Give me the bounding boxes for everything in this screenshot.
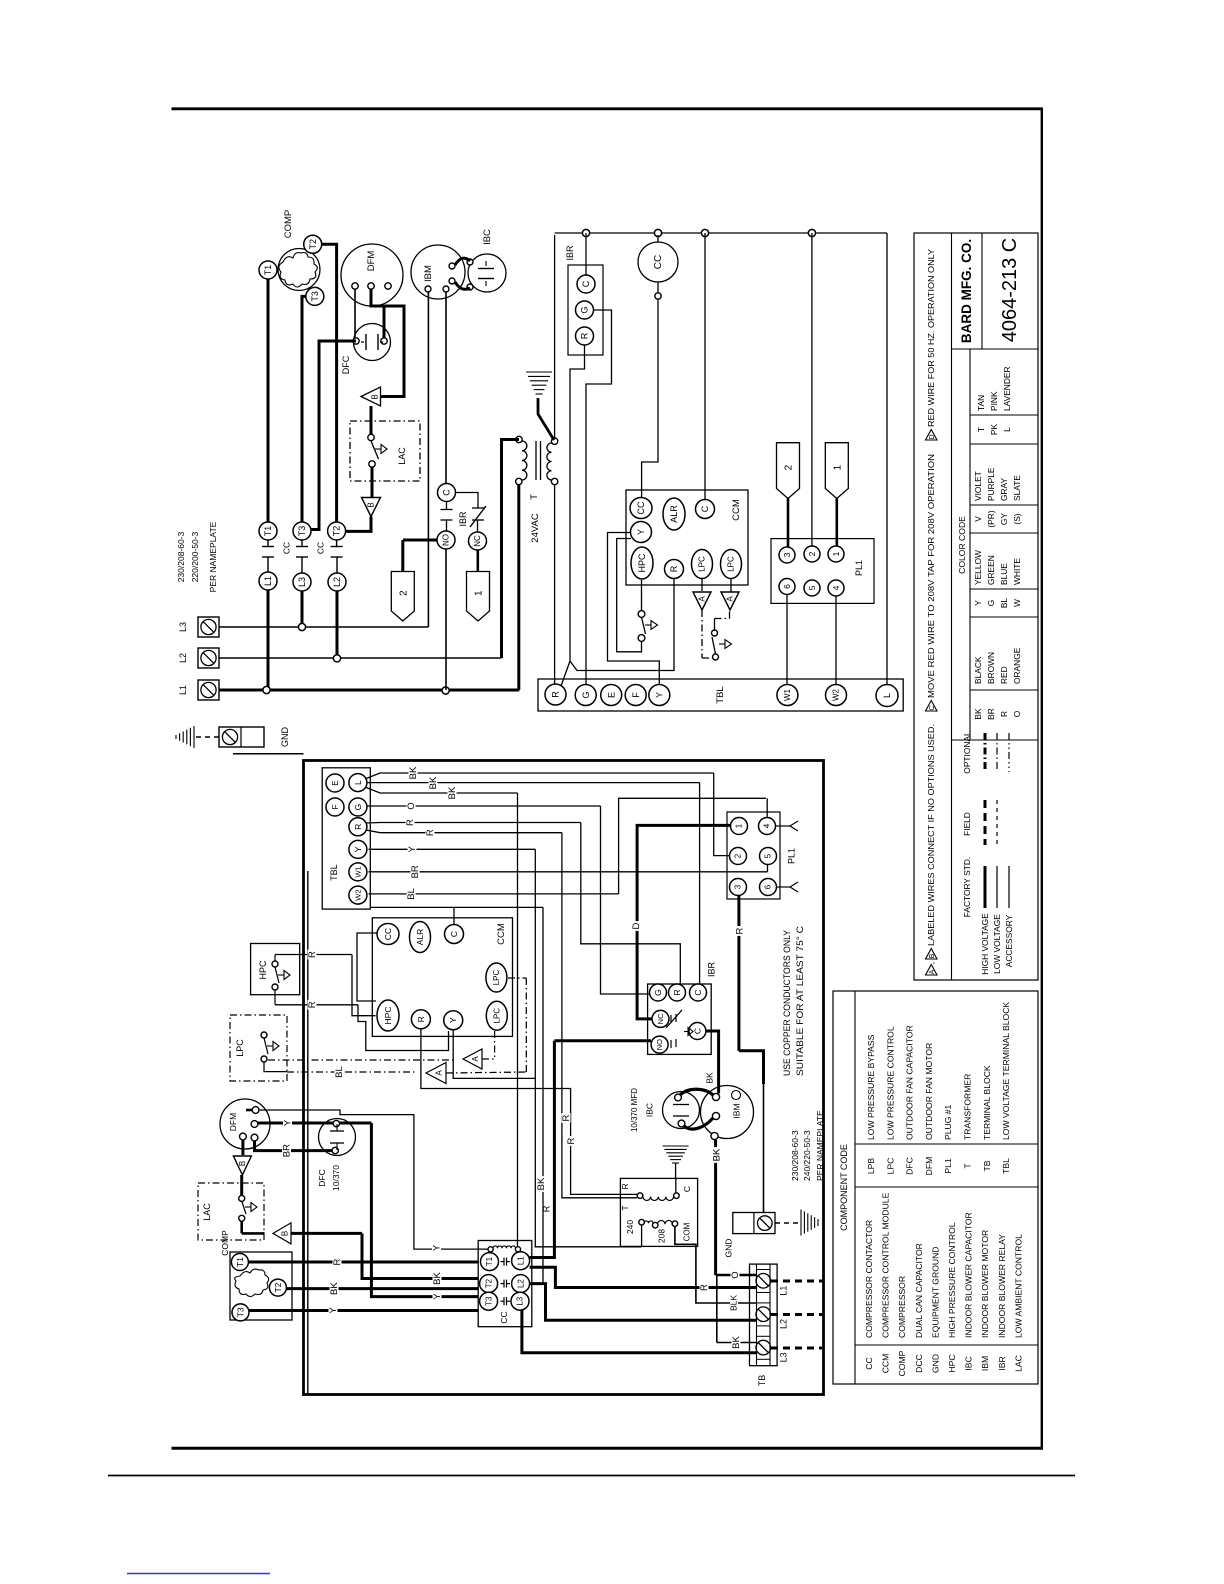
plug PL1 upper box [771,539,874,604]
wire DFM BR to DFC bottom [255,1141,332,1151]
svg-text:F: F [631,692,641,698]
transformer secondary coil [551,438,557,444]
svg-text:CCM: CCM [881,1354,891,1374]
wire LAC to B flag to CC T2 [240,1221,243,1233]
svg-text:,: , [926,962,936,964]
wire IBR G to TBL G [586,310,612,684]
contactor contact CC T1-L1 [259,522,277,540]
wire CC coil to CCM CC [642,299,658,497]
svg-text:L: L [353,780,363,785]
IBR G lower [650,984,667,1001]
wire T1 to contact CC [267,279,270,523]
svg-text:PINK: PINK [989,391,999,411]
CC T1 [481,1253,499,1271]
svg-text:L: L [882,693,892,698]
outdoor fan capacitor DFC circle [354,324,391,361]
svg-text:BR: BR [282,1144,293,1157]
PL1 pin 4 [828,580,844,596]
svg-text:220/200-50-3: 220/200-50-3 [190,531,200,582]
svg-text:LPC: LPC [727,556,736,572]
PL1 pin 3 [779,547,795,563]
svg-text:T: T [963,1163,973,1169]
svg-text:6: 6 [764,884,773,889]
PL1 pin 5 [804,580,820,596]
wire rail to TBL L [886,233,888,684]
wire junction to CCM R [570,578,674,671]
PL1-6 lower [760,879,777,896]
IBC capacitor plates [478,268,494,270]
svg-text:24VAC: 24VAC [530,513,541,543]
CCM terminal R [665,560,684,579]
svg-text:LPC: LPC [492,969,501,985]
svg-text:HIGH VOLTAGE: HIGH VOLTAGE [980,913,990,975]
wire CCM Y to TBL Y riser [453,1030,535,1078]
svg-text:DFM: DFM [924,1157,934,1176]
svg-text:BK: BK [536,1177,547,1190]
svg-text:CC: CC [864,1357,874,1369]
svg-text:T3: T3 [484,1296,493,1306]
wire CC L2 to TB L2 [530,1284,756,1321]
svg-text:TAN: TAN [976,395,986,411]
svg-text:B: B [280,1231,289,1236]
svg-text:IBM: IBM [732,1103,742,1118]
wire BK2 TBL L to IBR C [367,782,700,784]
svg-text:CC: CC [499,1311,509,1323]
svg-text:IBM: IBM [423,265,434,282]
svg-text:LOW AMBIENT CONTROL: LOW AMBIENT CONTROL [1013,1234,1023,1338]
CCM C lower [445,925,464,944]
wire COMP T2 to CC [287,1287,479,1290]
svg-text:IBR: IBR [458,511,468,527]
CCM terminal HPC [631,547,653,579]
wire BL TBL W2 to PL1 pin4 [369,893,619,895]
svg-text:R: R [699,1284,710,1291]
wire BK3 TBL L to CC coil [365,787,518,793]
svg-text:R: R [566,1137,577,1144]
HPC switch [272,961,278,967]
svg-text:(PR): (PR) [986,510,996,527]
IBR contact marks [670,1015,672,1023]
outdoor fan motor DFM lower [220,1099,270,1149]
svg-text:GND: GND [724,1239,734,1258]
svg-text:L: L [1002,427,1012,432]
svg-text:R: R [620,1183,630,1189]
svg-text:LOW VOLTAGE TERMINAL BLOCK: LOW VOLTAGE TERMINAL BLOCK [1001,1002,1011,1140]
svg-text:R: R [307,1001,318,1008]
CCM R lower [411,1010,430,1029]
TB L3 terminal [756,1340,771,1355]
svg-text:5: 5 [764,853,773,858]
dashed wire ground [196,736,219,738]
svg-text:LOW VOLTAGE: LOW VOLTAGE [992,914,1002,974]
svg-text:L3: L3 [297,577,307,587]
CCM terminal LPC2 [721,550,742,579]
svg-text:TBL: TBL [715,686,726,703]
wire R2 TBL R to transformer R [366,830,562,833]
wire T2 to contact CC [322,244,337,522]
IBC terminals [467,259,473,265]
svg-text:OUTDOOR FAN CAPACITOR: OUTDOOR FAN CAPACITOR [905,1025,915,1140]
compressor COMP winding [279,253,317,288]
chassis ground symbol [175,735,177,739]
svg-text:BL: BL [999,598,1009,609]
ground terminal GND [219,727,264,747]
svg-text:LPB: LPB [866,1158,876,1175]
svg-text:LPC: LPC [493,1008,502,1024]
wire CCM C to rail [704,233,706,499]
svg-text:R: R [551,691,561,698]
svg-text:VIOLET: VIOLET [973,471,983,501]
svg-text:A: A [929,969,936,974]
LAC switch [368,434,374,440]
compressor COMP box lower [230,1252,292,1320]
svg-text:CC: CC [653,255,664,269]
svg-text:O: O [1012,710,1022,717]
svg-text:T2: T2 [484,1278,493,1288]
svg-text:BK: BK [705,1072,715,1084]
field wiring L3 [771,1347,822,1350]
CC T3 [480,1292,498,1310]
svg-text:O: O [730,1271,741,1278]
svg-text:BR: BR [986,708,996,720]
CCM terminal Y [631,522,652,543]
svg-text:COLOR CODE: COLOR CODE [957,516,967,574]
svg-text:LAC: LAC [1013,1355,1023,1372]
phase row L3 [219,626,428,628]
compressor control module CCM box [626,490,748,585]
svg-text:HPC: HPC [947,1354,957,1372]
svg-text:TBL: TBL [329,864,339,881]
transformer primary coil lower [639,1219,645,1225]
wire IBR C to IBM [706,1031,719,1094]
svg-text:LOW PRESSURE BYPASS: LOW PRESSURE BYPASS [866,1034,876,1140]
flag 2 at PL1 [777,443,800,499]
CC T2 [480,1275,498,1293]
CC coil bottom terminal [657,282,659,293]
svg-text:DFC: DFC [905,1157,915,1175]
svg-text:TB: TB [757,1375,767,1387]
wire DFM top to CC coil Y riser [246,1109,252,1112]
svg-text:Y: Y [283,1119,294,1126]
svg-text:IBC: IBC [645,1103,655,1117]
wire IBM to TB L1 and L3 [714,1140,717,1275]
svg-text:T2: T2 [332,526,342,537]
svg-text:USE COPPER CONDUCTORS ONLY: USE COPPER CONDUCTORS ONLY [782,929,793,1076]
svg-text:R: R [542,1205,552,1212]
svg-text:MOVE RED WIRE TO 208V TAP FOR: MOVE RED WIRE TO 208V TAP FOR 208V OPERA… [926,454,936,698]
svg-text:LAVENDER: LAVENDER [1002,366,1012,411]
outdoor fan capacitor DFC lower [319,1119,356,1156]
svg-text:Y: Y [353,846,363,852]
wire primary top to L2 riser [502,440,520,659]
svg-text:BK: BK [731,1336,742,1349]
svg-text:LAC: LAC [202,1203,212,1221]
transformer core [535,441,537,480]
svg-text:2: 2 [784,464,795,470]
svg-text:BL: BL [334,1066,345,1078]
svg-text:LOW PRESSURE CONTROL: LOW PRESSURE CONTROL [885,1026,895,1140]
svg-text:W2: W2 [353,889,362,900]
svg-text:COMPRESSOR CONTROL MODULE: COMPRESSOR CONTROL MODULE [881,1192,891,1338]
CCM HPC lower [377,1000,399,1031]
svg-text:IBR: IBR [707,962,717,978]
svg-text:2: 2 [398,590,409,596]
svg-text:G: G [653,989,663,996]
svg-text:4064-213 C: 4064-213 C [999,238,1021,343]
line samples low voltage [996,866,998,908]
COMP winding lower [235,1269,269,1297]
TBL Y [349,840,367,858]
svg-text:IBM: IBM [980,1356,990,1371]
PL1 harness forks [776,825,791,827]
svg-text:Y: Y [636,529,646,535]
contactor coil CC circle [638,242,678,282]
svg-text:DFM: DFM [366,251,377,272]
svg-text:2: 2 [734,853,743,858]
svg-text:TERMINAL BLOCK: TERMINAL BLOCK [982,1065,992,1140]
svg-text:LAC: LAC [397,447,407,465]
terminal block TBL lower [322,768,370,909]
svg-text:2: 2 [807,551,817,556]
svg-text:HIGH PRESSURE CONTROL: HIGH PRESSURE CONTROL [947,1222,957,1338]
PL1-5 lower [760,848,777,865]
svg-text:G: G [580,306,590,313]
IBM terminals [425,286,431,292]
transformer T primary coil [516,436,522,442]
svg-text:240: 240 [625,1220,635,1234]
svg-text:L1: L1 [516,1256,525,1265]
svg-text:B: B [371,394,380,399]
svg-text:CC: CC [282,542,292,554]
page border bottom edge [172,1447,1044,1450]
wire IBR NO to R node [554,1039,651,1042]
svg-text:C: C [700,505,710,512]
indoor blower capacitor IBC circle [468,254,506,292]
warning notes line [926,965,938,976]
chassis ground above transformer [663,1145,689,1147]
flag 1 upper schematic [467,572,490,622]
svg-text:C: C [693,989,703,995]
wire secondary top to C rail [554,235,556,438]
PL1 pin 1 [828,546,844,562]
svg-text:L2: L2 [332,577,342,587]
svg-text:TB: TB [982,1160,992,1171]
svg-text:R: R [416,1016,426,1022]
IBR NO contact [651,1036,668,1053]
svg-text:D: D [631,922,642,929]
optional wire LPC to CCM LPC2 [268,1059,455,1061]
svg-text:R: R [580,332,590,339]
wire IBM to IBC lower [455,282,470,289]
svg-text:Y: Y [328,1307,339,1314]
TBL terminal Y [649,685,670,706]
svg-text:BR: BR [410,865,421,878]
wire T3 to contact CC [302,296,306,522]
svg-text:LPC: LPC [885,1158,895,1175]
flag B lower [362,498,381,517]
contactor CC box lower [478,1241,532,1327]
flag 2 upper schematic [391,572,414,622]
svg-text:T1: T1 [263,265,273,276]
wire R1 TBL R to IBR R [366,822,581,825]
svg-text:C: C [682,1186,692,1192]
wire B flag to LAC [370,406,373,434]
svg-text:R: R [561,1114,572,1121]
wire ground to C terminal [675,1178,677,1193]
footer rule line [108,1475,1075,1477]
svg-text:RED WIRE FOR 50 HZ. OPERATION: RED WIRE FOR 50 HZ. OPERATION ONLY [926,249,936,427]
low voltage rail [555,232,887,234]
PL1 pin 2 [804,546,820,562]
svg-text:HPC: HPC [637,553,647,573]
IBR contact ticks [446,502,448,510]
IBR NC contact [652,1010,669,1027]
low ambient control LAC box [350,421,420,481]
plug PL1 lower box [727,812,780,899]
svg-text:5: 5 [807,585,817,590]
IBR box terminal C [577,275,595,293]
svg-text:R: R [672,989,682,995]
field wiring L2 [771,1313,822,1316]
svg-text:W1: W1 [353,866,362,877]
relay contact IBR NO [437,531,455,549]
svg-text:T3: T3 [310,291,320,302]
svg-text:R: R [669,565,679,572]
svg-text:T2: T2 [308,239,318,250]
ground terminal GND lower [733,1213,775,1234]
svg-text:A: A [725,596,734,602]
svg-text:FIELD: FIELD [962,812,972,836]
svg-text:HPC: HPC [258,960,268,980]
svg-text:W: W [1012,599,1022,607]
transformer T box lower [620,1178,697,1246]
svg-text:YELLOW: YELLOW [973,550,983,585]
svg-text:T: T [529,494,540,500]
svg-text:GREEN: GREEN [986,555,996,585]
wire junction to TBL R diagonal [561,661,570,686]
svg-text:BK: BK [428,776,439,789]
svg-text:R: R [999,711,1009,717]
wire NO to L1 row [445,549,447,691]
svg-text:L1: L1 [178,685,188,695]
flag 1 at PL1 [825,443,848,499]
svg-text:1: 1 [474,590,485,596]
svg-text:DFM: DFM [228,1113,238,1131]
title cell divider [981,233,983,349]
svg-text:PLUG #1: PLUG #1 [943,1104,953,1140]
svg-text:ACCESSORY: ACCESSORY [1004,914,1014,967]
page border top edge [172,107,1044,110]
svg-text:ORANGE: ORANGE [1012,647,1022,684]
CCM CC lower [377,924,399,945]
svg-text:IBC: IBC [964,1356,974,1370]
svg-text:T1: T1 [263,526,273,537]
svg-text:10/370: 10/370 [331,1165,341,1191]
optional low pressure bypass wiring [701,579,703,592]
wire IBM left lead / L3 riser [427,292,429,627]
svg-text:1: 1 [831,551,841,556]
CC coil lower [488,1247,493,1252]
compressor COMP motor circle [278,249,320,291]
wire IBR R to TBL R [570,345,585,661]
svg-text:ALR: ALR [669,505,679,523]
svg-text:T: T [620,1205,630,1210]
indoor blower motor IBM circle [411,245,465,299]
CC L2 [512,1275,530,1293]
chassis ground symbol right [800,1210,802,1236]
contactor contact CC T2-L2 [328,522,346,540]
svg-text:Y: Y [448,1017,458,1023]
line samples accessory [1008,866,1010,908]
svg-text:BK: BK [432,1272,443,1285]
TBL terminal E [601,685,622,706]
svg-text:GY: GY [999,513,1009,526]
svg-text:L1: L1 [263,576,273,586]
IBR common contact [689,1023,706,1040]
svg-text:L2: L2 [779,1319,789,1329]
compressor terminal T2 [304,235,322,253]
terminal block TB [750,1264,778,1366]
terminal L3 [198,617,219,637]
svg-text:DUAL CAN CAPACITOR: DUAL CAN CAPACITOR [914,1243,924,1338]
svg-text:C: C [442,489,452,496]
svg-text:INDOOR BLOWER RELAY: INDOOR BLOWER RELAY [997,1234,1007,1338]
wire PL1 pin 4 to W2 [835,596,837,684]
IBR R lower [669,984,686,1001]
wire CC L3 to TB L3 [522,1310,756,1353]
svg-text:BLK: BLK [729,1295,739,1311]
CC L3 [511,1292,529,1310]
svg-text:IBC: IBC [482,229,493,245]
svg-text:T1: T1 [485,1256,494,1266]
svg-text:6: 6 [782,584,792,589]
PL1-3 lower [730,879,747,896]
svg-text:COMP: COMP [897,1350,907,1376]
line samples high voltage [984,866,987,908]
svg-text:1: 1 [735,823,744,828]
wire LAC to B flag lower [371,467,374,498]
svg-text:10/370 MFD: 10/370 MFD [630,1088,639,1132]
TBL terminal R [545,684,566,705]
TBL W1 [349,863,367,881]
wire CCM Y to HPC switch [617,539,642,652]
outdoor fan motor DFM circle [341,244,403,306]
svg-text:IBR: IBR [565,245,575,261]
enclosure inner line [307,871,309,1393]
IBR NC contact with slash [472,507,484,509]
wire secondary bottom to TBL R [554,485,556,685]
svg-text:4: 4 [831,585,841,590]
wire CCM CC to HPC oval [357,933,377,1001]
svg-text:Y: Y [407,845,418,852]
svg-text:D: D [929,434,936,439]
relay IBR box lower [648,984,712,1054]
wire DFC left to T3 node [311,341,356,530]
svg-text:WHITE: WHITE [1012,558,1022,585]
svg-text:CC: CC [316,542,326,554]
relay coil box IBR [568,265,603,355]
svg-text:BK: BK [712,1148,723,1161]
svg-text:BK: BK [408,766,419,779]
wire flag2 to NO thick [403,539,438,542]
svg-text:E: E [330,780,340,786]
svg-text:L3: L3 [779,1352,789,1362]
low pressure control LPC box [230,1015,287,1081]
CC L1 [512,1252,530,1270]
wire O TBL G to IBR G [367,805,601,807]
wire Y TBL Y to 240 tap riser [369,848,536,850]
svg-text:PL1: PL1 [854,560,864,576]
